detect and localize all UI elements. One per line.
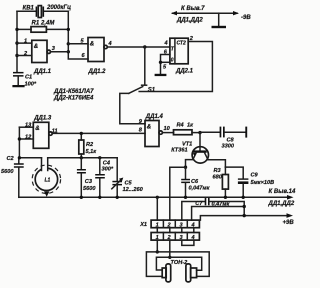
svg-text:К Выв.7: К Выв.7 xyxy=(181,6,205,12)
resistor R2 5.1k xyxy=(79,132,97,158)
op-amp gate DD1.3 xyxy=(19,116,57,149)
wire DD2.1 pin2 feedback loop xyxy=(139,36,212,92)
svg-text:С9: С9 xyxy=(251,173,259,179)
svg-text:ДД1,ДД2: ДД1,ДД2 xyxy=(176,18,203,24)
svg-text:L1: L1 xyxy=(45,178,51,184)
svg-text:Х1: Х1 xyxy=(139,222,147,228)
svg-text:R2: R2 xyxy=(86,142,94,148)
svg-text:0,047мк: 0,047мк xyxy=(189,185,211,191)
connector X1 row1 xyxy=(139,220,199,228)
node rail junction dots xyxy=(80,196,245,199)
transistor VT1 KT361 xyxy=(171,133,208,163)
wire DD2.1 pins 5,6 to ground xyxy=(159,55,170,74)
wire row2 cell1 to phones xyxy=(156,240,159,253)
svg-text:C4: C4 xyxy=(103,160,111,166)
wire DD1.3 input rail xyxy=(18,127,21,158)
svg-text:ДД1-К561ЛА7: ДД1-К561ЛА7 xyxy=(53,89,94,95)
capacitor C8 3300 xyxy=(200,127,247,150)
svg-text:2000кГц: 2000кГц xyxy=(46,5,71,11)
wire phones inner loop xyxy=(156,257,201,270)
svg-text:ДД1.3: ДД1.3 xyxy=(33,116,52,122)
crystal KB1 xyxy=(17,5,71,18)
svg-text:С3: С3 xyxy=(85,179,93,185)
svg-text:12...260: 12...260 xyxy=(123,187,144,193)
svg-text:5600: 5600 xyxy=(1,169,14,175)
capacitor C7 0.47 xyxy=(182,198,244,220)
resistor R1 2.4M xyxy=(17,21,68,33)
capacitor C9 5uF electrolytic xyxy=(238,173,274,198)
svg-text:ДД2.1: ДД2.1 xyxy=(175,69,194,75)
svg-text:СТ2: СТ2 xyxy=(177,41,186,47)
svg-text:&: & xyxy=(35,126,39,132)
connector X1 row2 xyxy=(151,233,199,241)
svg-text:5,1к: 5,1к xyxy=(86,149,98,155)
capacitor C1 100 xyxy=(13,72,37,88)
svg-text:10: 10 xyxy=(164,126,171,132)
node base junction xyxy=(198,131,201,134)
capacitor C3 5600 xyxy=(77,158,96,198)
wire inter-row stubs xyxy=(157,228,194,233)
svg-text:R4: R4 xyxy=(177,123,185,129)
op-amp gate DD1.4 xyxy=(139,114,171,147)
wire phones outer loop xyxy=(146,252,209,277)
svg-text:ДД1.1: ДД1.1 xyxy=(33,69,52,75)
capacitor C4 300 xyxy=(95,158,114,198)
svg-text:100*: 100* xyxy=(25,82,37,88)
svg-text:VT1: VT1 xyxy=(182,141,192,147)
svg-text:680: 680 xyxy=(213,175,223,181)
wire emitter path xyxy=(170,159,193,220)
svg-text:5600: 5600 xyxy=(83,186,96,192)
op-amp gate DD1.1 xyxy=(17,39,68,76)
wire left rail oscillator xyxy=(16,11,18,72)
wire tank top xyxy=(18,156,118,159)
svg-text:&: & xyxy=(147,124,151,130)
op-amp gate DD1.2 xyxy=(68,38,170,76)
wire U-link row2 cells 3-4 xyxy=(182,240,194,245)
svg-text:13: 13 xyxy=(25,123,32,129)
headphones TON-2 xyxy=(162,260,196,282)
svg-text:К Выв.14: К Выв.14 xyxy=(269,189,296,195)
wire +9V branch xyxy=(200,213,294,226)
wire row2 cell2 to phones xyxy=(168,240,171,259)
svg-text:R1: R1 xyxy=(32,21,40,27)
wire X1 cell1 xyxy=(156,197,158,220)
trimmer capacitor C5 12-260 xyxy=(112,158,144,198)
wire DD1.3 output to DD1.4 pin8 xyxy=(52,132,145,134)
svg-text:ДД1.4: ДД1.4 xyxy=(145,114,164,120)
ground under C1 xyxy=(12,85,24,87)
svg-text:300*: 300* xyxy=(102,167,114,173)
svg-text:КТ361: КТ361 xyxy=(171,148,187,154)
wire S1 to DD1.4 pin9 xyxy=(120,93,145,123)
svg-text:S1: S1 xyxy=(148,88,156,94)
ground under DD2.1 xyxy=(155,74,167,76)
capacitor C2 5600 xyxy=(1,156,24,197)
node junction dots oscillator xyxy=(15,28,70,58)
text IC list xyxy=(53,89,94,102)
wire bottom +9V rail to pin14 xyxy=(19,189,296,207)
svg-text:&: & xyxy=(34,44,38,50)
counter DD2.1 xyxy=(163,38,194,74)
switch S1 xyxy=(129,47,156,94)
svg-text:1: 1 xyxy=(24,39,27,45)
svg-text:12: 12 xyxy=(25,134,32,140)
svg-text:ДД2-К176ИЕ4: ДД2-К176ИЕ4 xyxy=(53,96,94,102)
svg-text:&: & xyxy=(90,41,94,47)
svg-text:+9В: +9В xyxy=(283,220,295,226)
resistor R3 680 xyxy=(213,167,229,197)
svg-text:2,4М: 2,4М xyxy=(40,21,55,27)
svg-text:С5: С5 xyxy=(125,181,133,187)
svg-text:-9В: -9В xyxy=(241,15,251,21)
node junction S1 top xyxy=(143,45,146,48)
svg-text:ДД1.2: ДД1.2 xyxy=(88,69,107,75)
svg-text:С6: С6 xyxy=(191,179,199,185)
inductor L1 magnetic antenna xyxy=(32,158,60,197)
svg-text:КВ1: КВ1 xyxy=(23,6,35,12)
wire collector path xyxy=(208,159,244,179)
svg-text:5мк×10В: 5мк×10В xyxy=(251,180,275,186)
resistor R4 1k xyxy=(162,123,200,135)
svg-text:С1: С1 xyxy=(25,75,32,81)
svg-text:0: 0 xyxy=(171,58,174,64)
wire X1 cell4 branch xyxy=(192,205,246,220)
capacitor C6 0.047 xyxy=(181,167,210,197)
svg-text:ДД1,ДД2: ДД1,ДД2 xyxy=(268,201,295,207)
terminal -9V supply xyxy=(171,6,251,28)
svg-text:С2: С2 xyxy=(7,156,15,162)
svg-text:R3: R3 xyxy=(214,168,222,174)
svg-text:3300: 3300 xyxy=(222,144,235,150)
wire right rail oscillator xyxy=(68,11,88,59)
